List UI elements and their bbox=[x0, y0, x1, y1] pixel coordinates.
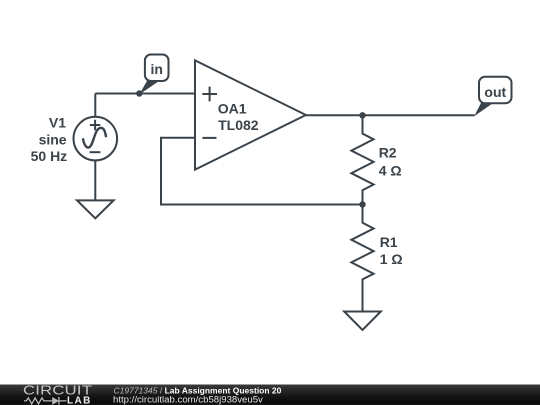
svg-text:http://circuitlab.com/cb58j938: http://circuitlab.com/cb58j938veu5v bbox=[113, 395, 263, 405]
svg-text:LAB: LAB bbox=[67, 396, 92, 405]
svg-text:OA1: OA1 bbox=[218, 100, 247, 116]
svg-text:R2: R2 bbox=[379, 145, 397, 161]
svg-text:1 Ω: 1 Ω bbox=[380, 251, 403, 267]
svg-text:4 Ω: 4 Ω bbox=[379, 162, 402, 178]
svg-text:sine: sine bbox=[39, 132, 67, 148]
svg-text:50 Hz: 50 Hz bbox=[31, 148, 68, 164]
svg-text:R1: R1 bbox=[380, 234, 398, 250]
svg-text:TL082: TL082 bbox=[218, 117, 259, 133]
svg-text:V1: V1 bbox=[49, 114, 66, 130]
svg-text:out: out bbox=[484, 84, 506, 100]
svg-text:in: in bbox=[150, 61, 162, 77]
